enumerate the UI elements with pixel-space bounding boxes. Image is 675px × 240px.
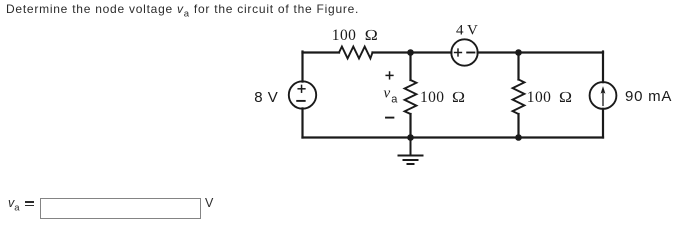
node dot bottom of R3 <box>515 134 522 141</box>
resistor R1 100 ohm horizontal zigzag <box>339 47 373 59</box>
wire top-left segment (corner to R1) <box>303 51 340 53</box>
svg-text:Ω: Ω <box>559 89 573 106</box>
wire right upper segment (corner to current source) <box>602 52 604 83</box>
wire bottom rail <box>303 136 604 138</box>
current source I1 90mA circle with up arrow <box>590 82 617 109</box>
wire left lower segment (8V source to corner) <box>301 108 303 137</box>
wire top-right segment (4V source to corner) <box>478 51 603 53</box>
voltage source V2 4V circle with plus minus <box>451 39 477 65</box>
wire bottom lead of resistor R3 <box>517 114 519 138</box>
svg-text:v: v <box>384 86 391 102</box>
svg-text:4 V: 4 V <box>456 22 478 38</box>
wire bottom lead of resistor R2 <box>409 114 411 138</box>
answer label va = <box>8 196 20 214</box>
svg-text:100: 100 <box>332 27 356 44</box>
resistor R1 value label 100 ohm <box>332 27 378 44</box>
resistor R2 100 ohm vertical zigzag (va branch) <box>405 80 417 114</box>
equals sign <box>0 0 675 1</box>
resistor R3 100 ohm vertical zigzag <box>513 80 525 115</box>
svg-text:8 V: 8 V <box>254 89 278 106</box>
resistor R2 value label 100 ohm <box>420 89 465 106</box>
svg-text:Ω: Ω <box>452 89 466 106</box>
svg-text:100: 100 <box>420 89 444 106</box>
wire top lead of resistor R3 <box>517 53 519 80</box>
problem statement text <box>6 2 359 19</box>
polarity plus above va <box>386 72 393 79</box>
svg-text:Ω: Ω <box>365 27 379 44</box>
polarity minus below va <box>386 117 393 119</box>
wire top-middle segment (R1 to 4V source) <box>373 51 452 53</box>
wire top lead of resistor R2 <box>409 53 411 81</box>
svg-text:a: a <box>391 94 398 106</box>
voltage source V1 8V circle with plus minus <box>289 81 316 108</box>
answer unit V <box>205 196 213 210</box>
node dot top of R3 <box>515 49 522 56</box>
node dot bottom of R2 (ground node) <box>407 134 414 141</box>
wire right lower segment (current source to corner) <box>602 109 604 138</box>
svg-text:90 mA: 90 mA <box>625 88 672 105</box>
svg-text:100: 100 <box>527 89 551 106</box>
wire left upper segment (corner to 8V source) <box>301 52 303 82</box>
answer input box <box>40 198 201 219</box>
node dot a (top of R2) <box>407 49 414 56</box>
ground symbol <box>399 138 423 165</box>
resistor R3 value label 100 ohm <box>527 89 573 106</box>
